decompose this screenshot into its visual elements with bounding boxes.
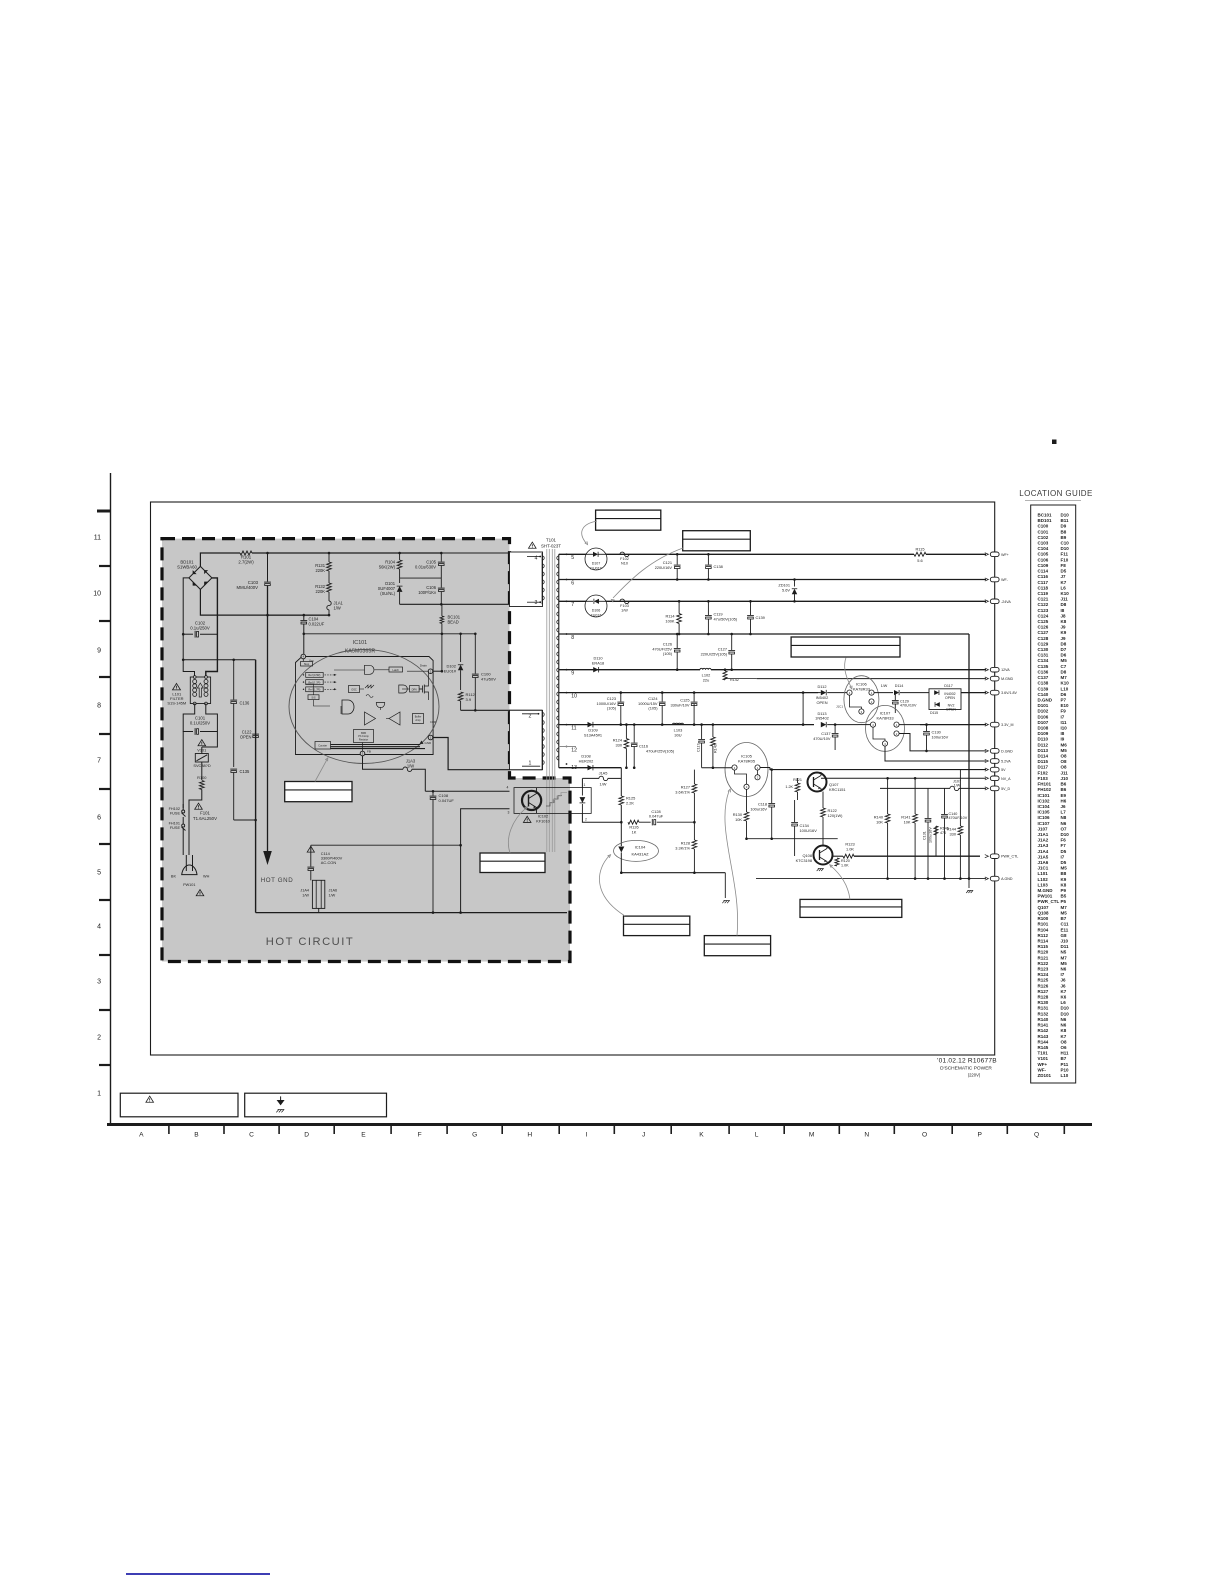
capacitor C103 (snubber) xyxy=(267,553,269,582)
svg-text:C116: C116 xyxy=(1038,574,1049,579)
location guide table box xyxy=(1031,505,1076,1083)
IC101 internal: sine xyxy=(366,695,373,698)
svg-text:B: B xyxy=(194,1132,199,1139)
svg-text:E10: E10 xyxy=(1061,703,1070,708)
svg-text:F: F xyxy=(418,1132,422,1139)
svg-text:EU01#: EU01# xyxy=(444,669,457,674)
svg-text:330: 330 xyxy=(950,831,957,836)
rail 6 wire (WF-) xyxy=(559,579,986,581)
svg-text:1/W: 1/W xyxy=(954,783,961,787)
svg-text:220U/25V(105): 220U/25V(105) xyxy=(701,651,728,656)
svg-text:M5: M5 xyxy=(1061,658,1068,663)
capacitor C102 0.1u/250V xyxy=(183,633,193,635)
capacitor C131 100u/16V (vertical label) xyxy=(925,818,932,820)
svg-text:D8: D8 xyxy=(1061,669,1067,674)
chassis ground symbol in legend xyxy=(276,1110,279,1113)
wire inside pin box 1 xyxy=(522,765,540,767)
svg-text:C103: C103 xyxy=(1038,541,1049,546)
main schematic border xyxy=(151,502,995,1055)
svg-text:J1A5: J1A5 xyxy=(599,771,608,776)
svg-text:I11: I11 xyxy=(1061,720,1068,725)
resistor R130 10K xyxy=(746,789,748,812)
svg-text:5.6: 5.6 xyxy=(917,558,922,563)
svg-text:L6: L6 xyxy=(1061,585,1067,590)
jumper J1A1 xyxy=(328,592,330,601)
connector D.GND xyxy=(990,749,999,754)
IC101 internal: misc connection lines xyxy=(302,659,304,662)
svg-text:M7: M7 xyxy=(1061,955,1068,960)
svg-text:FH101: FH101 xyxy=(1038,782,1052,787)
resistor R112 3.9 xyxy=(458,692,463,701)
svg-text:J1A3: J1A3 xyxy=(1038,843,1049,848)
svg-text:C104: C104 xyxy=(1038,546,1049,551)
svg-text:K7: K7 xyxy=(1061,1034,1067,1039)
rail 13 wire xyxy=(559,767,622,769)
svg-text:Drain: Drain xyxy=(420,664,428,668)
svg-text:1: 1 xyxy=(584,783,586,787)
svg-text:2: 2 xyxy=(97,1035,101,1042)
svg-text:IC104: IC104 xyxy=(635,844,646,849)
svg-text:1/W: 1/W xyxy=(334,606,341,611)
resistor R120 1.0K xyxy=(835,858,839,866)
svg-text:C138: C138 xyxy=(1038,681,1049,686)
svg-text:K7: K7 xyxy=(1061,580,1067,585)
svg-text:1/W: 1/W xyxy=(407,763,414,768)
bottom ruler ticks xyxy=(168,1126,170,1134)
svg-text:N: N xyxy=(864,1132,869,1139)
svg-text:K8: K8 xyxy=(1061,882,1067,887)
svg-text:I: I xyxy=(586,1132,588,1139)
capacitor C124 1000U/15V(105) xyxy=(661,693,663,702)
regulator IC107 KA78R33 xyxy=(866,705,905,751)
svg-text:Q107: Q107 xyxy=(1038,905,1050,910)
svg-text:D8: D8 xyxy=(1061,641,1067,646)
resistor R125 2.2K xyxy=(620,778,622,796)
resistor R123 1.0K on PWR_CTL xyxy=(833,855,843,857)
svg-text:2: 2 xyxy=(871,700,873,704)
svg-text:C131: C131 xyxy=(1038,653,1049,658)
callout box (blank label) near Q108 xyxy=(800,899,902,917)
wire IC107 pin4 to rail 11 xyxy=(858,724,870,726)
capacitor C108 0.047UF xyxy=(432,791,434,795)
diode D113 1N5402 xyxy=(821,722,826,727)
svg-text:4: 4 xyxy=(872,723,874,727)
svg-text:R122: R122 xyxy=(1038,961,1049,966)
shunt regulator IC104 KA431AZ xyxy=(614,840,659,861)
svg-text:E9: E9 xyxy=(1061,793,1067,798)
svg-text:1N5402: 1N5402 xyxy=(815,716,829,721)
svg-text:C122: C122 xyxy=(1038,602,1049,607)
svg-text:R121: R121 xyxy=(1038,955,1049,960)
M.GND rail xyxy=(757,678,986,680)
svg-text:B11: B11 xyxy=(1061,518,1070,523)
svg-text:GND: GND xyxy=(425,741,433,745)
inductor L103 30U xyxy=(673,723,684,724)
IC101 ellipse outline xyxy=(289,650,439,764)
svg-text:C138: C138 xyxy=(714,564,723,569)
svg-text:LOCATION GUIDE: LOCATION GUIDE xyxy=(1019,489,1092,498)
svg-text:DRV: DRV xyxy=(412,687,418,691)
capacitor C127 220U/25V(105) xyxy=(731,634,733,650)
resistor R115 5.6 on rail5 xyxy=(914,552,926,556)
svg-text:L103: L103 xyxy=(1038,882,1049,887)
svg-text:P11: P11 xyxy=(1061,1062,1069,1067)
svg-text:C139: C139 xyxy=(756,615,765,620)
svg-text:N6: N6 xyxy=(1061,1023,1067,1028)
svg-text:J10: J10 xyxy=(1061,938,1069,943)
svg-text:100U/16V: 100U/16V xyxy=(800,828,818,833)
svg-text:C11: C11 xyxy=(1061,922,1070,927)
svg-text:J9: J9 xyxy=(1061,636,1067,641)
capacitor C118 100u/16V xyxy=(771,770,773,803)
svg-text:0.1U/250V: 0.1U/250V xyxy=(190,721,210,726)
arrow from callout to IC106 xyxy=(845,658,851,688)
resistor R104 56K(2W) xyxy=(399,553,401,560)
svg-text:AC-CON: AC-CON xyxy=(321,860,337,865)
svg-text:3: 3 xyxy=(535,600,538,606)
svg-text:L101: L101 xyxy=(1038,871,1049,876)
svg-text:R115: R115 xyxy=(915,547,924,552)
svg-text:V101: V101 xyxy=(1038,1056,1049,1061)
svg-text:(105): (105) xyxy=(648,706,658,711)
resistor R145 470 xyxy=(934,826,938,835)
svg-text:F9: F9 xyxy=(1061,709,1067,714)
wire IC106 pin1 to 3.6V line xyxy=(845,692,848,694)
callout box (blank label) near IC102 xyxy=(480,853,545,873)
connector WF+ xyxy=(990,552,999,557)
svg-text:J10: J10 xyxy=(1061,776,1069,781)
capacitor C138 xyxy=(707,554,709,564)
svg-text:D6: D6 xyxy=(1061,653,1067,658)
svg-text:1/W: 1/W xyxy=(621,608,628,612)
capacitor C130 100u/16V xyxy=(926,725,928,731)
svg-text:D.GND: D.GND xyxy=(1038,697,1053,702)
diode D107 DU01 circle xyxy=(585,548,607,570)
svg-text:C123: C123 xyxy=(1038,608,1049,613)
svg-text:1/W: 1/W xyxy=(881,684,888,688)
svg-text:100P/1Kv: 100P/1Kv xyxy=(418,590,437,595)
svg-text:F8: F8 xyxy=(1061,563,1067,568)
svg-text:D10: D10 xyxy=(1061,832,1070,837)
wire into IC105 pin4 xyxy=(702,767,732,769)
svg-text:100u/16V: 100u/16V xyxy=(932,734,949,739)
svg-text:K9: K9 xyxy=(1061,877,1067,882)
connector PWR_CTL xyxy=(990,854,999,859)
arrow from callout to Q108 xyxy=(831,866,850,899)
arrow from callout to IC104 xyxy=(599,856,625,916)
svg-text:1K: 1K xyxy=(632,830,637,835)
transformer primary winding 4-3 xyxy=(541,553,543,604)
IC101 pin Drain xyxy=(428,669,433,674)
svg-text:R140: R140 xyxy=(1038,1017,1049,1022)
svg-text:220U/16V: 220U/16V xyxy=(655,565,673,570)
svg-text:D10: D10 xyxy=(1061,513,1070,518)
svg-text:PWR_CTL: PWR_CTL xyxy=(1001,855,1018,859)
svg-text:J107: J107 xyxy=(1038,826,1049,831)
resistor R101 on DC+ rail xyxy=(240,551,252,555)
capacitor C126 470UF/25V(105) xyxy=(676,634,678,648)
svg-text:C106: C106 xyxy=(1038,557,1049,562)
svg-text:6: 6 xyxy=(571,580,574,586)
svg-text:4: 4 xyxy=(507,786,509,790)
rail 5 wire (WF+) xyxy=(559,553,914,555)
wire R104-C105 mid xyxy=(400,577,442,579)
wire IC102 pin3 return xyxy=(461,809,510,913)
svg-text:3.3V_M: 3.3V_M xyxy=(1001,723,1013,727)
svg-text:5V: 5V xyxy=(1001,768,1006,772)
svg-text:O8: O8 xyxy=(1061,1039,1068,1044)
svg-text:9: 9 xyxy=(97,648,101,655)
svg-text:G8: G8 xyxy=(1061,933,1068,938)
capacitor C135 xyxy=(230,768,237,770)
svg-text:R115: R115 xyxy=(1038,944,1049,949)
svg-text:J1C1: J1C1 xyxy=(836,705,843,709)
capacitor C119 47u/50V(105) xyxy=(707,601,709,615)
wire rail13 down to J1A5 line xyxy=(620,768,622,779)
svg-text:0.047UF: 0.047UF xyxy=(439,798,455,803)
svg-text:3: 3 xyxy=(884,742,886,746)
svg-text:KF1010: KF1010 xyxy=(536,818,550,823)
resistor R114 100K xyxy=(678,601,680,613)
svg-text:K8: K8 xyxy=(1061,1028,1067,1033)
svg-text:100u/16V: 100u/16V xyxy=(929,827,933,843)
svg-text:1: 1 xyxy=(871,691,873,695)
svg-text:N10: N10 xyxy=(621,561,628,565)
svg-text:FH102: FH102 xyxy=(169,807,180,811)
rail 12 stub xyxy=(559,746,576,748)
svg-text:3: 3 xyxy=(746,785,748,789)
svg-text:L10: L10 xyxy=(1061,686,1069,691)
svg-text:C127: C127 xyxy=(1038,630,1049,635)
svg-text:L: L xyxy=(755,1132,759,1139)
svg-text:330uF/10V: 330uF/10V xyxy=(670,702,689,707)
svg-text:N5: N5 xyxy=(1061,950,1067,955)
svg-text:K7: K7 xyxy=(1061,989,1067,994)
zener ZD101 5.6V xyxy=(794,580,796,587)
wire to transformer pin 3 xyxy=(400,603,543,605)
wire C102 to line filter xyxy=(183,631,194,677)
svg-text:B7: B7 xyxy=(1061,1056,1067,1061)
svg-text:C128: C128 xyxy=(1038,636,1049,641)
svg-text:O: O xyxy=(922,1132,927,1139)
svg-text:5: 5 xyxy=(97,870,101,877)
svg-text:220K: 220K xyxy=(315,589,325,594)
svg-text:D115: D115 xyxy=(1038,759,1049,764)
svg-text:330: 330 xyxy=(616,742,623,747)
svg-text:D110: D110 xyxy=(1038,737,1049,742)
svg-text:D112: D112 xyxy=(1038,742,1049,747)
diode D112 IN5402 OPEN xyxy=(821,690,826,695)
svg-text:C121: C121 xyxy=(1038,597,1049,602)
arrow from callout to D107 xyxy=(582,521,597,543)
fuse F103 xyxy=(620,599,629,604)
svg-text:I8: I8 xyxy=(1061,731,1065,736)
svg-text:C135: C135 xyxy=(240,769,251,774)
svg-text:J1A4: J1A4 xyxy=(1038,849,1049,854)
IC101 internal: Vstop box xyxy=(301,662,313,667)
rail 8 wire (ground return) xyxy=(559,633,969,635)
svg-text:C102: C102 xyxy=(1038,535,1049,540)
resistor R128 3.3K/1% xyxy=(692,840,697,849)
svg-text:H11: H11 xyxy=(1061,1051,1070,1056)
svg-text:R127: R127 xyxy=(1038,989,1049,994)
svg-text:HOT GND: HOT GND xyxy=(261,877,294,884)
svg-text:D114: D114 xyxy=(1038,754,1049,759)
svg-text:R114: R114 xyxy=(1038,938,1049,943)
svg-text:(105): (105) xyxy=(607,706,617,711)
legend box 1 (warning note) xyxy=(120,1093,238,1117)
svg-text:I9: I9 xyxy=(1061,737,1065,742)
svg-text:9: 9 xyxy=(571,671,574,677)
svg-text:B5: B5 xyxy=(1061,894,1067,899)
svg-text:5: 5 xyxy=(571,555,574,561)
IC105 internal wires xyxy=(735,770,747,784)
svg-text:WH: WH xyxy=(203,875,210,879)
svg-text:D106: D106 xyxy=(1038,714,1049,719)
resistor R144 330 xyxy=(958,826,963,835)
svg-text:D5: D5 xyxy=(1061,849,1067,854)
svg-text:D114: D114 xyxy=(895,684,904,688)
capacitor C134 100U/16V xyxy=(794,800,796,822)
wire C101 down both sides xyxy=(182,732,184,809)
IC102 LED (diode) xyxy=(581,788,583,796)
svg-text:J6: J6 xyxy=(1061,983,1067,988)
resistor R141 10K xyxy=(913,814,918,823)
IC101 internal: AND gate top xyxy=(365,665,375,674)
transformer secondary winding xyxy=(558,554,560,767)
IC101 internal: S/S box xyxy=(308,695,319,700)
wire inside pin box 3 xyxy=(527,601,540,603)
svg-text:0.022UF: 0.022UF xyxy=(309,622,325,627)
svg-text:7: 7 xyxy=(97,758,101,765)
diode D110 ERA18 xyxy=(593,667,598,672)
svg-text:C117: C117 xyxy=(1038,580,1049,585)
svg-text:1.0K: 1.0K xyxy=(841,863,849,867)
svg-text:'01.02.12 R10677B: '01.02.12 R10677B xyxy=(937,1058,997,1065)
svg-text:S/S: S/S xyxy=(311,695,315,699)
rail 7 wire (-24VA) xyxy=(559,600,986,602)
callout box (blank label) near IC101 xyxy=(285,782,352,802)
svg-text:R101: R101 xyxy=(1038,922,1049,927)
diode D106 FU01 circle xyxy=(585,595,607,617)
wire IC107 pin1 to 3.3V rail xyxy=(899,724,920,726)
warning triangle near L101 xyxy=(173,683,181,689)
svg-text:I7: I7 xyxy=(1061,714,1065,719)
svg-text:HER202: HER202 xyxy=(579,758,594,763)
svg-text:R100: R100 xyxy=(1038,916,1049,921)
wire bridge left to C102 column xyxy=(183,578,189,631)
svg-text:R123: R123 xyxy=(1038,967,1049,972)
svg-text:0.1u/250V: 0.1u/250V xyxy=(190,626,210,631)
wire inside pin box 4 xyxy=(527,556,540,558)
5V rail from IC105 xyxy=(760,767,770,769)
svg-text:D107: D107 xyxy=(1038,720,1049,725)
svg-text:F103: F103 xyxy=(1038,776,1049,781)
svg-text:C137: C137 xyxy=(1038,675,1049,680)
svg-text:R128: R128 xyxy=(1038,995,1049,1000)
svg-text:R142: R142 xyxy=(1038,1028,1049,1033)
arrow from callout to D106 xyxy=(613,548,683,598)
capacitor C117 (vertical label) xyxy=(701,725,703,739)
svg-text:C114: C114 xyxy=(1038,569,1049,574)
resistor R124 330 xyxy=(625,725,627,739)
svg-text:3.6K/1%: 3.6K/1% xyxy=(675,789,690,794)
connector 3.3V_M xyxy=(990,722,999,727)
bottom hot bus xyxy=(256,912,567,914)
svg-text:R104: R104 xyxy=(1038,927,1049,932)
svg-text:K9: K9 xyxy=(1061,630,1067,635)
svg-text:F102: F102 xyxy=(620,557,629,561)
svg-text:1: 1 xyxy=(97,1091,101,1098)
svg-text:D5: D5 xyxy=(1061,569,1067,574)
svg-text:3: 3 xyxy=(508,811,510,815)
svg-text:C117: C117 xyxy=(697,743,701,752)
wire C114 top xyxy=(311,844,461,846)
diode D102 EU01 xyxy=(460,634,462,662)
rail 11 wire (3.3V) xyxy=(559,724,814,726)
svg-text:B8: B8 xyxy=(1061,529,1067,534)
svg-text:M5: M5 xyxy=(1061,866,1068,871)
svg-text:1: 1 xyxy=(896,723,898,727)
svg-text:FH101: FH101 xyxy=(169,822,180,826)
svg-text:J1A2: J1A2 xyxy=(1038,838,1049,843)
rail 10 wire xyxy=(559,692,818,694)
svg-text:F103: F103 xyxy=(620,604,629,608)
IC101 internal: ref boxes xyxy=(306,673,324,678)
svg-text:1.0K: 1.0K xyxy=(846,846,854,851)
svg-text:NV_A: NV_A xyxy=(1001,777,1011,781)
svg-text:FUSE: FUSE xyxy=(170,812,181,816)
capacitor C114 3300P/400V xyxy=(310,845,312,866)
svg-text:1/W: 1/W xyxy=(600,781,607,786)
wire bridge right to C102 column xyxy=(212,578,218,631)
svg-text:30U: 30U xyxy=(674,732,681,737)
svg-text:10K: 10K xyxy=(735,817,742,822)
svg-text:(105): (105) xyxy=(663,651,673,656)
svg-text:V101: V101 xyxy=(197,748,206,753)
wire IC107 pin2 to D.GND xyxy=(899,734,986,751)
svg-text:Stop: Stop xyxy=(304,662,310,666)
svg-text:K10: K10 xyxy=(1061,591,1070,596)
svg-text:L10: L10 xyxy=(1061,1073,1069,1078)
svg-text:KA78R33: KA78R33 xyxy=(876,715,894,720)
regulator IC106 KA78R33 xyxy=(844,676,879,723)
svg-text:I7: I7 xyxy=(1061,854,1065,859)
svg-text:R120: R120 xyxy=(1038,950,1049,955)
svg-text:Q: Q xyxy=(1034,1132,1039,1139)
svg-text:T1.6AL250V: T1.6AL250V xyxy=(193,816,217,821)
svg-text:C: C xyxy=(249,1132,254,1139)
rail 9 wire (12VA) xyxy=(559,669,700,671)
svg-text:R124: R124 xyxy=(1038,972,1049,977)
svg-text:E11: E11 xyxy=(1061,927,1069,932)
transistor Q108 KTC3198 xyxy=(814,846,833,865)
svg-text:C100: C100 xyxy=(1038,524,1049,529)
svg-text:T101: T101 xyxy=(1038,1051,1049,1056)
svg-text:(SU/NL): (SU/NL) xyxy=(380,591,395,596)
fuse F102 xyxy=(620,552,629,557)
svg-text:A.GND: A.GND xyxy=(1001,877,1013,881)
svg-text:C109: C109 xyxy=(1038,563,1049,568)
svg-text:O6: O6 xyxy=(1061,1045,1068,1050)
NV_A rail xyxy=(821,777,986,779)
callout box (blank label) near IC104 xyxy=(624,916,690,936)
svg-text:D102: D102 xyxy=(1038,709,1049,714)
svg-text:IC107: IC107 xyxy=(1038,821,1051,826)
resistor R142 xyxy=(723,671,727,680)
capacitor C140 470UF/10V xyxy=(941,814,948,816)
svg-text:OSC: OSC xyxy=(351,687,357,691)
